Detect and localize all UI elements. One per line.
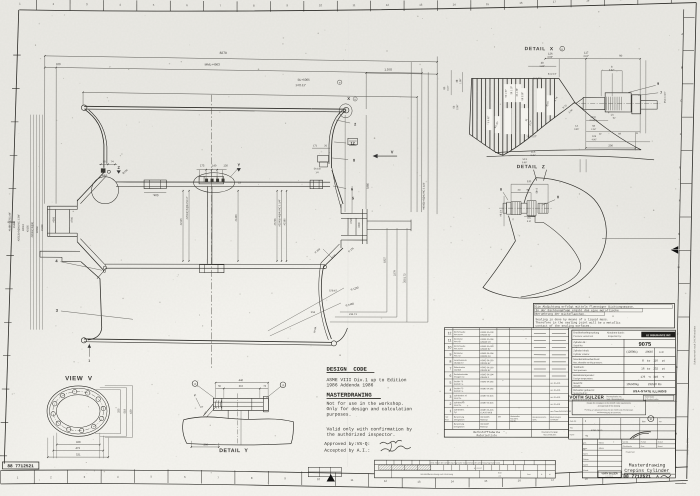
svg-text:#1466: #1466 [235, 214, 238, 222]
svg-text:7: 7 [449, 367, 451, 371]
svg-text:F: F [679, 199, 681, 203]
svg-text:88 7712521: 88 7712521 [7, 464, 34, 469]
svg-text:ASME-SA-285: ASME-SA-285 [480, 387, 494, 390]
svg-text:MML+4963: MML+4963 [205, 62, 220, 66]
svg-text:325: 325 [117, 408, 120, 413]
svg-text:Head Fa.: Head Fa. [454, 397, 462, 400]
svg-text:Serial No:: Serial No: [573, 344, 583, 347]
svg-text:232: 232 [653, 367, 658, 371]
svg-text:*400: *400 [153, 193, 159, 197]
svg-text:10: 10 [319, 3, 323, 7]
svg-text:hexagon nut: hexagon nut [454, 376, 465, 379]
svg-text:GRADE B7: GRADE B7 [480, 369, 491, 372]
svg-text:9: 9 [657, 82, 659, 86]
svg-text:Gewicht:: Gewicht: [573, 382, 583, 385]
svg-text:LE INSURANCE INC: LE INSURANCE INC [646, 334, 671, 337]
svg-text:Die Abdichtung erfolgt mittels: Die Abdichtung erfolgt mittels fluessige… [536, 304, 635, 308]
svg-text:Tag: Tag [570, 426, 573, 429]
svg-text:8270: 8270 [220, 51, 227, 55]
svg-text:(2): (2) [611, 113, 614, 116]
svg-text:553: 553 [311, 311, 316, 314]
svg-text:2: 2 [354, 123, 356, 127]
svg-text:NACH DIN 6771: NACH DIN 6771 [686, 438, 689, 455]
svg-text:#4042(=9@4UNC 1 1/4": #4042(=9@4UNC 1 1/4" [423, 182, 426, 209]
svg-text:acc.SA-516: acc.SA-516 [550, 382, 560, 385]
svg-text:0.32": 0.32" [609, 69, 615, 72]
svg-text:Blatt: Blatt [642, 420, 646, 423]
svg-text:bar: bar [647, 368, 651, 371]
svg-text:58+2: 58+2 [536, 187, 539, 193]
svg-text:6: 6 [449, 374, 451, 378]
svg-text:14.5: 14.5 [531, 151, 536, 154]
svg-text:318: 318 [239, 385, 244, 388]
svg-text:8: 8 [449, 360, 451, 364]
svg-text:Pennsylvania Inc.: Pennsylvania Inc. [606, 395, 622, 398]
svg-text:CLASS WCB: CLASS WCB [480, 411, 492, 414]
svg-text:Design temperature:: Design temperature: [573, 377, 593, 380]
svg-text:adj.tapp.scr: adj.tapp.scr [454, 361, 464, 364]
svg-text:Hex.nut: Hex.nut [454, 340, 461, 343]
svg-text:acc.SA-516: acc.SA-516 [550, 403, 560, 406]
svg-text:and approval of the drawing: and approval of the drawing [598, 404, 620, 407]
svg-text:purposes.: purposes. [327, 413, 352, 418]
svg-text:Inspection by:: Inspection by: [608, 335, 622, 338]
svg-text:Max.Betriebsueberdruck:: Max.Betriebsueberdruck: [573, 358, 600, 361]
svg-text:2279: 2279 [393, 270, 396, 276]
svg-text:Hex.nut: Hex.nut [454, 354, 461, 357]
svg-text:1: 1 [88, 359, 90, 363]
svg-text:#720: #720 [350, 218, 353, 224]
svg-text:88 7712521: 88 7712521 [623, 474, 651, 480]
svg-text:Hex.screw: Hex.screw [454, 347, 463, 350]
svg-text:8: 8 [353, 159, 355, 163]
svg-text:Valid only with confirmation b: Valid only with confirmation by [327, 426, 413, 432]
svg-text:Datum: Datum [583, 458, 589, 461]
svg-text:ASME-SA-516: ASME-SA-516 [480, 402, 494, 405]
svg-text:ASME-SA-194: ASME-SA-194 [480, 352, 494, 355]
svg-text:1986 Addenda 1986: 1986 Addenda 1986 [327, 382, 374, 388]
svg-text:HYDRO: HYDRO [606, 476, 614, 478]
svg-text:G: G [678, 232, 680, 236]
svg-text:103: 103 [592, 135, 597, 138]
svg-text:GRADE B7: GRADE B7 [480, 362, 491, 365]
svg-text:* 5 0.02": * 5 0.02" [487, 116, 490, 125]
svg-text:2551.72: 2551.72 [403, 273, 406, 283]
svg-text:5: 5 [352, 197, 354, 201]
svg-text:Werkst.: Werkst. [623, 440, 629, 443]
svg-text:Mat.No.: Mat.No. [510, 420, 517, 423]
svg-text:GRADE 2: GRADE 2 [480, 376, 490, 379]
svg-text:Weight:: Weight: [573, 385, 581, 388]
svg-text:GRADE B7: GRADE B7 [480, 334, 491, 337]
svg-text:VOITH SULZER: VOITH SULZER [569, 395, 604, 400]
svg-text:17: 17 [553, 0, 557, 4]
svg-text:50 1.97": 50 1.97" [505, 89, 508, 98]
svg-text:15: 15 [486, 2, 490, 6]
svg-text:the authorized inspector.: the authorized inspector. [327, 432, 396, 438]
svg-text:Benennung: Benennung [454, 423, 464, 426]
svg-text:3A 1.34": 3A 1.34" [516, 88, 519, 97]
svg-text:2.28": 2.28" [591, 128, 596, 131]
svg-text:0.45": 0.45" [531, 154, 536, 157]
svg-text:#2513(=9@4UNC 1 3/4": #2513(=9@4UNC 1 3/4" [18, 214, 21, 241]
svg-text:York / Pennsylvania: York / Pennsylvania [606, 398, 624, 401]
svg-text:Druckbehaelterpruefung: Druckbehaelterpruefung [573, 331, 599, 334]
svg-text:16: 16 [641, 367, 645, 371]
svg-text:(Isolier) Fa.: (Isolier) Fa. [454, 383, 464, 386]
svg-text:Spec.: Spec. [532, 418, 537, 421]
svg-text:#8.1/4: #8.1/4 [500, 209, 503, 216]
svg-text:GRADE 2H: GRADE 2H [480, 341, 491, 344]
svg-text:#1446: #1446 [13, 221, 16, 229]
svg-text:92-04: 92-04 [599, 442, 604, 445]
svg-text:130: 130 [223, 164, 228, 167]
svg-text:Only for design and calculatio: Only for design and calculation [327, 406, 413, 412]
svg-text:19: 19 [620, 0, 624, 1]
svg-text:Max.allowable working pressure: Max.allowable working pressure: [573, 361, 602, 364]
svg-text:MASTERDRAWING: MASTERDRAWING [327, 392, 373, 399]
svg-text:Blatt: Blatt [498, 471, 502, 474]
svg-text:1.89": 1.89" [459, 78, 462, 83]
svg-text:473: 473 [76, 447, 81, 450]
svg-text:0.55": 0.55" [574, 128, 579, 131]
svg-text:4.61": 4.61" [583, 55, 589, 58]
svg-text:0.55(1): 0.55(1) [590, 119, 597, 122]
svg-text:9: 9 [449, 353, 451, 357]
svg-text:#850: #850 [102, 174, 108, 177]
svg-text:90: 90 [619, 55, 622, 58]
svg-text:Modell: Modell [658, 441, 664, 444]
svg-text:ASME-SA-516: ASME-SA-516 [480, 394, 494, 397]
svg-text:12: 12 [350, 142, 354, 146]
svg-text:GRADE B7: GRADE B7 [480, 348, 491, 351]
svg-text:VOITH SULZER: VOITH SULZER [602, 472, 618, 475]
svg-text:ASME-SA-193: ASME-SA-193 [480, 359, 494, 362]
svg-text:gez.: gez. [583, 442, 587, 445]
svg-text:14(1): 14(1) [590, 116, 596, 119]
svg-text:Masst.: Masst. [658, 445, 664, 448]
svg-text:stud bolt: stud bolt [454, 368, 462, 371]
svg-text:#2240(=4@4UNC 1 1/4": #2240(=4@4UNC 1 1/4" [278, 199, 281, 226]
svg-text:Zust.Abt.: Zust.Abt. [570, 420, 577, 423]
svg-text:ASME-SA-193: ASME-SA-193 [480, 331, 494, 334]
svg-text:DESIGN CODE: DESIGN CODE [327, 366, 368, 373]
svg-text:Betriebstemperatur:: Betriebstemperatur: [573, 374, 594, 377]
svg-text:A: A [681, 32, 683, 36]
svg-text:Cylinder volume:: Cylinder volume: [573, 353, 590, 356]
svg-text:0.56": 0.56" [522, 161, 527, 164]
svg-text:bar: bar [647, 360, 651, 363]
svg-text:G: G [512, 218, 514, 221]
svg-text:Werkstoffbezeichnung nach Zeic: Werkstoffbezeichnung nach Zeichnung [420, 473, 453, 476]
svg-text:2NC 1 3/4": 2NC 1 3/4" [664, 91, 667, 103]
svg-text:In der Dichtungsfuge ergibt da: In der Dichtungsfuge ergibt das eine met… [536, 308, 620, 312]
svg-text:#1486 / 13'11.44": #1486 / 13'11.44" [9, 212, 12, 231]
svg-text:29587: 29587 [645, 350, 653, 354]
svg-text:Material: Material [480, 418, 488, 421]
svg-text:USA-STATE ILLINOIS: USA-STATE ILLINOIS [633, 389, 667, 393]
svg-text:1A: 1A [575, 125, 578, 128]
svg-text:B: B [681, 65, 683, 69]
svg-text:acc.Class GrS#516 1.36: acc.Class GrS#516 1.36 [550, 410, 571, 413]
svg-text:200: 200 [204, 443, 209, 446]
svg-text:Cyl.: Cyl. [454, 411, 458, 414]
svg-text:DETAIL Z: DETAIL Z [517, 164, 546, 170]
svg-text:Part: Part [445, 418, 449, 421]
svg-text:140: 140 [212, 164, 217, 167]
svg-text:Beruehrung der Dichtflaechen.: Beruehrung der Dichtflaechen. [536, 312, 587, 316]
svg-text:Aend. Besch der Aenderung Tag: Aend. Besch der Aenderung Tag Name Aend.… [430, 461, 501, 464]
svg-text:Beanspruchungsgr.: Beanspruchungsgr. [542, 431, 559, 434]
svg-text:11: 11 [352, 3, 355, 7]
svg-text:Certificate: Certificate [550, 418, 558, 421]
svg-text:Abnahme durch:: Abnahme durch: [607, 331, 625, 334]
svg-text:Werkstoff: Werkstoff [480, 423, 489, 426]
svg-text:Werkstoff: Werkstoff [480, 416, 489, 419]
svg-text:Head Fa.: Head Fa. [454, 404, 462, 407]
svg-text:58 2.28": 58 2.28" [521, 92, 524, 101]
svg-text:100: 100 [56, 62, 61, 66]
svg-text:12: 12 [448, 331, 452, 335]
svg-text:1885: 1885 [367, 183, 370, 189]
svg-text:DETAIL X: DETAIL X [525, 46, 554, 52]
svg-text:(Isolier) Fa.: (Isolier) Fa. [454, 390, 464, 393]
svg-text:9075: 9075 [639, 342, 651, 348]
svg-text:psi: psi [662, 368, 666, 371]
svg-text:K: K [676, 365, 678, 369]
svg-text:440: 440 [239, 379, 244, 382]
svg-text:1.070: 1.070 [384, 68, 392, 72]
svg-text:15: 15 [484, 479, 488, 483]
svg-text:1.89": 1.89" [539, 65, 545, 68]
svg-text:Schutzvermerk nach DIN 34 beac: Schutzvermerk nach DIN 34 beachten [693, 325, 696, 365]
svg-text:#700: #700 [71, 216, 74, 222]
svg-text:ASME-SA-193: ASME-SA-193 [480, 345, 494, 348]
svg-text:X: X [347, 96, 350, 101]
svg-text:Design for compliance to the A: Design for compliance to the ASME Code r… [587, 402, 631, 405]
svg-text:12: 12 [386, 3, 390, 7]
svg-text:120: 120 [527, 180, 532, 183]
svg-text:BL+5065: BL+5065 [298, 78, 310, 82]
svg-text:200: 200 [608, 144, 613, 147]
svg-text:116: 116 [653, 359, 658, 363]
svg-text:18: 18 [586, 0, 590, 2]
svg-text:#390: #390 [358, 222, 361, 228]
svg-text:ASME-04-10: ASME-04-10 [591, 429, 603, 432]
svg-text:Name: Name [570, 433, 575, 436]
svg-text:ASME-SA-285: ASME-SA-285 [480, 380, 494, 383]
svg-text:8: 8 [557, 195, 559, 199]
svg-text:#2150: #2150 [27, 225, 30, 233]
svg-text:ASME-SA-194: ASME-SA-194 [480, 338, 494, 341]
svg-text:Materialliste: Materialliste [477, 434, 498, 437]
svg-text:8: 8 [500, 188, 502, 192]
svg-text:232587 lbs: 232587 lbs [648, 382, 662, 386]
svg-text:3.15": 3.15" [447, 85, 450, 90]
svg-text:a b c d e f: a b c d e f [474, 467, 482, 470]
svg-text:13: 13 [419, 3, 423, 7]
svg-text:10: 10 [448, 345, 452, 349]
svg-text:Mat.certificates: Mat.certificates [543, 433, 556, 436]
svg-text:von: von [659, 421, 662, 423]
svg-text:176: 176 [641, 375, 646, 379]
svg-text:#5736: #5736 [274, 218, 277, 226]
svg-text:ASME-SA-216: ASME-SA-216 [480, 409, 494, 412]
svg-text:acc.SA-516: acc.SA-516 [550, 389, 560, 392]
svg-text:Designation: Designation [454, 425, 465, 428]
svg-text:16: 16 [518, 478, 522, 482]
svg-text:Tbg: Tbg [585, 434, 588, 437]
svg-text:Gew.: Gew. [641, 445, 645, 448]
svg-text:14'2.11": 14'2.11" [295, 83, 306, 87]
svg-text:Y: Y [238, 162, 241, 167]
svg-text:211.71: 211.71 [349, 313, 357, 316]
svg-text:Masterdrawing: Masterdrawing [629, 462, 666, 468]
svg-text:DETAIL Y: DETAIL Y [219, 448, 248, 454]
svg-text:17: 17 [551, 478, 555, 482]
svg-text:#2513(=5@4UNC 2": #2513(=5@4UNC 2" [186, 196, 189, 219]
svg-text:518: 518 [124, 409, 127, 414]
svg-text:171: 171 [313, 144, 318, 147]
svg-text:contact of the sealing surface: contact of the sealing surfaces. [536, 324, 592, 328]
svg-text:13: 13 [417, 480, 421, 484]
svg-text:10: 10 [317, 477, 321, 481]
svg-text:E: E [679, 165, 681, 169]
svg-text:18 0.71": 18 0.71" [533, 77, 542, 80]
svg-text:Oberflaeche: Oberflaeche [623, 445, 632, 448]
svg-text:C: C [680, 99, 682, 103]
svg-text:14: 14 [453, 3, 457, 7]
svg-text:14: 14 [451, 479, 455, 483]
svg-text:H: H [678, 265, 680, 269]
svg-text:Behaelter gebaut in:: Behaelter gebaut in: [573, 389, 595, 392]
svg-text:von: von [498, 476, 501, 478]
svg-text:428: 428 [76, 441, 81, 444]
svg-text:Norm: Norm [583, 453, 588, 456]
svg-text:12: 12 [384, 479, 388, 483]
svg-text:Zust: Zust [527, 473, 531, 476]
svg-text:#2180: #2180 [283, 218, 286, 226]
svg-text:Approved by:VS-Q:: Approved by:VS-Q: [324, 441, 370, 447]
svg-text:D: D [680, 132, 682, 136]
svg-text:°C: °C [648, 376, 651, 379]
svg-text:Pressure vessel test: Pressure vessel test [573, 335, 593, 338]
svg-text:Test pressure:: Test pressure: [573, 369, 587, 372]
svg-text:1: 1 [449, 409, 451, 413]
svg-text:14.3: 14.3 [522, 158, 527, 161]
svg-text:92-04: 92-04 [599, 447, 604, 450]
svg-text:4.06": 4.06" [592, 138, 597, 141]
svg-text:Hex.screw: Hex.screw [454, 333, 463, 336]
svg-text:14.5 0.57": 14.5 0.57" [526, 135, 537, 138]
svg-text:Not for use in the workshop.: Not for use in the workshop. [327, 401, 404, 407]
svg-text:1827: 1827 [383, 257, 386, 263]
svg-text:ASME-SA-194: ASME-SA-194 [480, 373, 494, 376]
svg-text:ASME VIII Div.1 up to Edition: ASME VIII Div.1 up to Edition [327, 377, 407, 383]
svg-text:#2125: #2125 [180, 218, 183, 226]
svg-text:3: 3 [449, 395, 451, 399]
svg-text:cu in: cu in [659, 351, 665, 354]
svg-text:Masst.: Masst. [583, 469, 589, 472]
svg-text:11: 11 [351, 478, 354, 482]
svg-text:V: V [391, 149, 394, 154]
svg-text:5: 5 [449, 381, 451, 385]
svg-text:#580: #580 [53, 216, 56, 222]
svg-text:2.09": 2.09" [456, 104, 459, 109]
svg-text:Designation: Designation [454, 418, 465, 421]
svg-text:Zylinder Inhalt:: Zylinder Inhalt: [573, 349, 589, 352]
svg-text:16: 16 [519, 1, 523, 5]
svg-text:Testdruck:: Testdruck: [573, 366, 584, 369]
svg-text:Ersatz fuer:: Ersatz fuer: [626, 451, 636, 454]
svg-text:579.47: 579.47 [329, 289, 337, 292]
svg-text:acc.SA-516: acc.SA-516 [550, 396, 560, 399]
svg-text:2: 2 [449, 402, 451, 406]
svg-text:Name: Name [583, 464, 588, 467]
svg-text:7: 7 [660, 91, 662, 95]
svg-text:349: 349 [653, 375, 658, 379]
svg-text:105500kg: 105500kg [626, 382, 639, 386]
svg-text:#2013: #2013 [22, 224, 25, 232]
svg-text:Zylinder-Nr.:: Zylinder-Nr.: [573, 341, 586, 344]
svg-text:Benennung: Benennung [454, 416, 464, 419]
svg-text:11: 11 [448, 338, 452, 342]
svg-text:5A 1/8: 5A 1/8 [314, 167, 321, 170]
svg-text:175: 175 [200, 164, 205, 167]
svg-text:GRADE 2H: GRADE 2H [480, 355, 491, 358]
svg-text:Accepted by A.I.:: Accepted by A.I.: [324, 448, 370, 454]
svg-text:531: 531 [76, 454, 81, 457]
svg-text:Material: Material [480, 425, 488, 428]
svg-text:psi: psi [662, 360, 666, 363]
svg-text:54 2.13": 54 2.13" [548, 73, 557, 76]
svg-text:4: 4 [449, 388, 451, 392]
svg-text:VIEW V: VIEW V [65, 375, 93, 382]
svg-text:ASME-SA-193: ASME-SA-193 [480, 366, 494, 369]
svg-text:Rohteil: Rohteil [641, 441, 647, 444]
svg-text:28 1.10": 28 1.10" [510, 86, 513, 95]
svg-text:(120001): (120001) [626, 350, 637, 354]
svg-text:430: 430 [130, 409, 133, 414]
